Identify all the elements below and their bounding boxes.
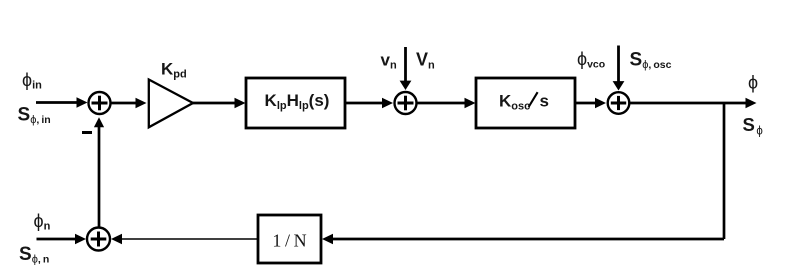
svg-text:KlpHlp(s): KlpHlp(s) — [265, 91, 330, 112]
svg-text:s: s — [540, 92, 549, 111]
svg-text:1 / N: 1 / N — [272, 231, 306, 251]
svg-text:ϕ: ϕ — [748, 73, 758, 93]
